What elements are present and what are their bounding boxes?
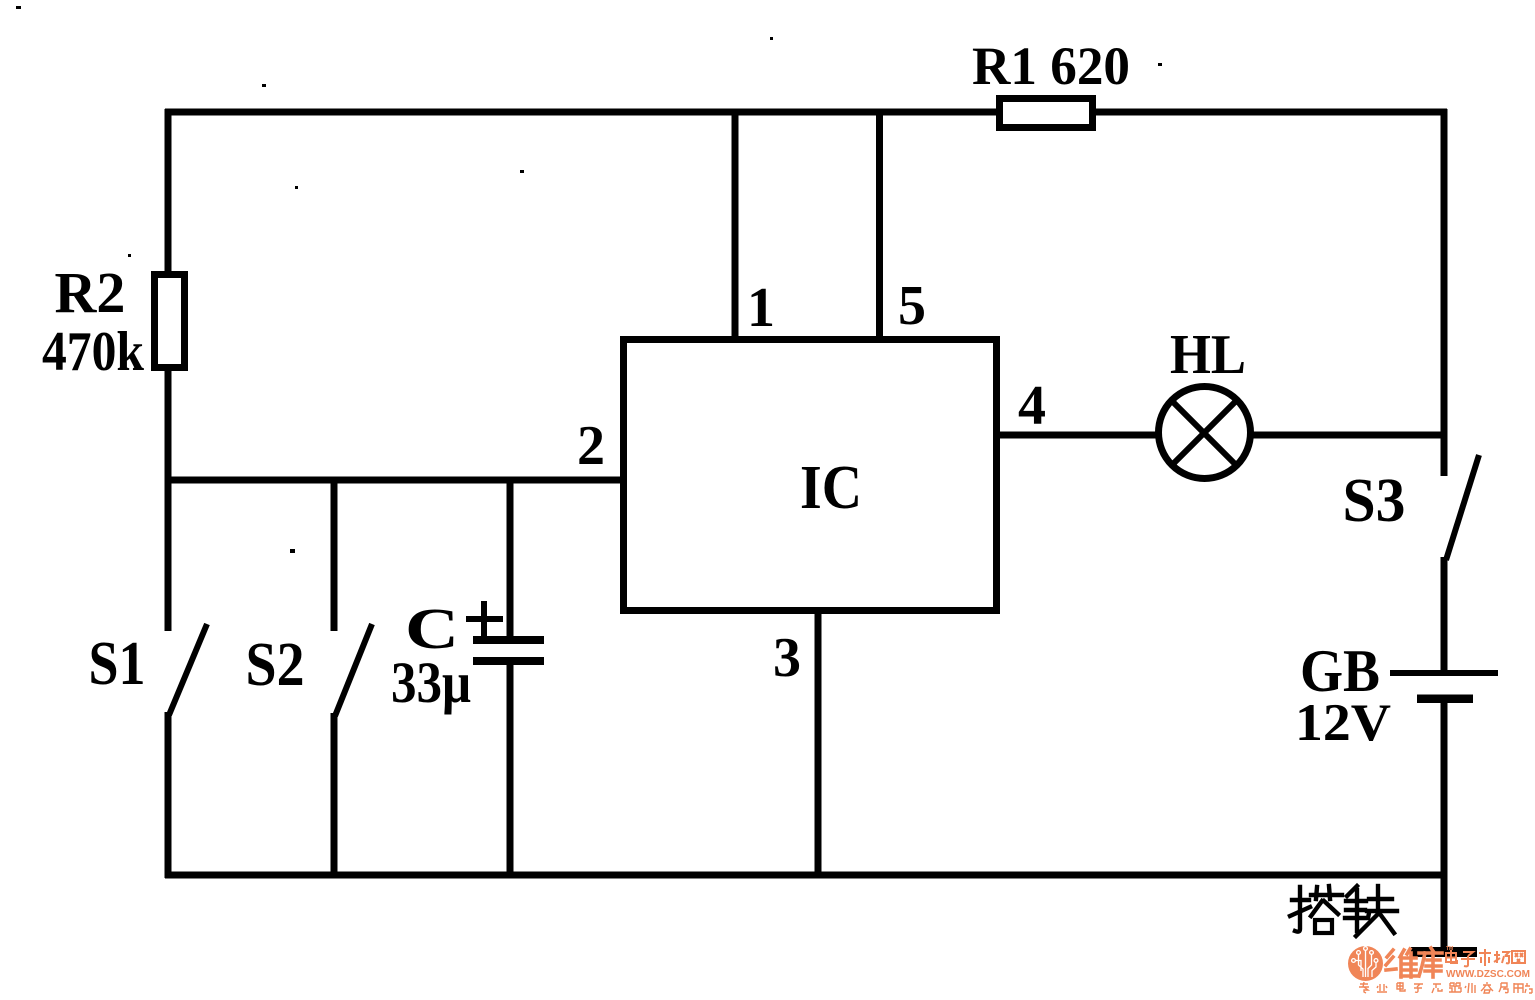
char tie (right) — [1347, 886, 1357, 896]
svg-text:2: 2 — [577, 415, 605, 477]
svg-text:5: 5 — [898, 275, 926, 337]
svg-text:3: 3 — [773, 627, 801, 689]
wire: ground stem — [1441, 875, 1448, 950]
lamp HL body — [1159, 387, 1251, 479]
wire: S2 upper lead — [331, 477, 338, 631]
wire: S1 lower lead — [165, 712, 172, 878]
wire: lamp to right bus — [1251, 432, 1447, 439]
svg-text:IC: IC — [800, 454, 862, 522]
wire: bottom ground bus — [165, 872, 1447, 879]
battery GB plates — [1390, 670, 1498, 676]
wire: S2 lower lead — [331, 713, 338, 878]
wire: left vertical bus (through R2 down to S1 break) — [165, 109, 172, 631]
wire: battery negative lead to bottom bus — [1441, 700, 1448, 878]
svg-text:S2: S2 — [246, 631, 305, 699]
ground chassis bar — [1411, 947, 1477, 957]
label dati (chassis ground) hand-drawn CJK — [1290, 886, 1397, 936]
watermark slogan row of small CJK — [1359, 982, 1532, 993]
watermark logo circle — [1348, 946, 1383, 981]
wire: top supply bus from left corner to right corner — [165, 109, 1447, 116]
svg-text:TM: TM — [1446, 946, 1453, 952]
watermark dianzishichangwang small CJK row — [1446, 949, 1525, 966]
resistor R1 in top bus — [1000, 99, 1093, 128]
svg-text:12V: 12V — [1295, 694, 1391, 752]
wire: pin 1 lead to top bus — [732, 109, 739, 336]
svg-text:33μ: 33μ — [391, 650, 471, 715]
watermark weiku large CJK — [1386, 948, 1442, 977]
switch S3 blade — [1446, 455, 1479, 560]
svg-text:R2: R2 — [55, 260, 126, 325]
svg-text:HL: HL — [1170, 324, 1246, 386]
wire: capacitor C upper lead — [507, 477, 514, 640]
svg-text:R1 620: R1 620 — [972, 36, 1130, 96]
svg-text:S3: S3 — [1343, 467, 1406, 535]
switch S2 blade — [335, 624, 372, 716]
wire: right vertical bus upper part — [1441, 109, 1448, 476]
svg-text:S1: S1 — [89, 630, 146, 698]
svg-text:WWW.DZSC.COM: WWW.DZSC.COM — [1446, 968, 1530, 980]
wire: pin-2 horizontal net from left bus to IC — [165, 477, 620, 484]
svg-text:470k: 470k — [42, 321, 145, 383]
polarity plus sign of C — [466, 616, 503, 622]
svg-text:4: 4 — [1018, 375, 1046, 437]
switch S1 blade — [169, 624, 207, 715]
svg-text:1: 1 — [747, 277, 775, 339]
wire: capacitor C lower lead — [507, 661, 514, 878]
op-amp IC U1 box — [624, 340, 997, 611]
resistor R2 body — [155, 275, 185, 368]
wire: pin 3 lead down to ground bus — [815, 614, 822, 878]
char da (left) — [1295, 887, 1300, 932]
wire: pin 5 lead to top bus — [876, 109, 883, 336]
wire: pin 4 net to lamp — [1000, 432, 1158, 439]
capacitor C plates — [473, 636, 544, 644]
wire: S3 to battery — [1441, 557, 1448, 673]
scan speckles — [16, 6, 1162, 553]
